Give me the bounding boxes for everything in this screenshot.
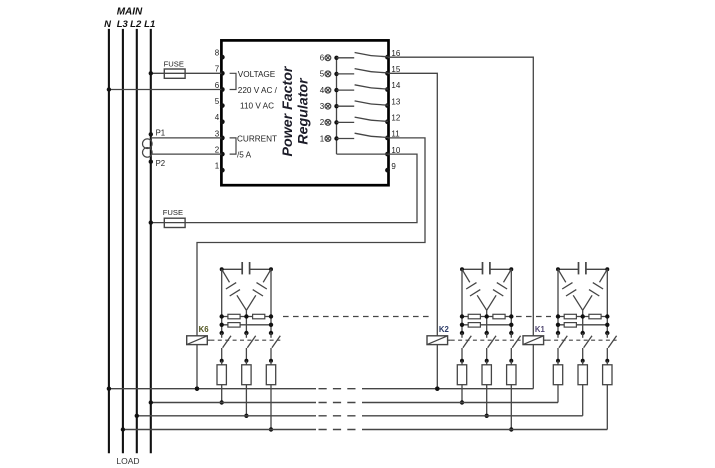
fuse F23	[510, 361, 512, 430]
node bus L2 junctions	[135, 414, 139, 418]
pin 13 of U1	[385, 103, 390, 108]
node discharge row 2	[460, 323, 464, 327]
relay contact K2-2	[485, 331, 489, 335]
contactor coil K2	[427, 336, 448, 345]
wire pin 10 to fuse F2 to L1	[151, 154, 417, 223]
wire pin 11 to contactor K6 coil	[197, 138, 425, 336]
wire N to pin 6	[109, 89, 221, 91]
svg-text:2: 2	[320, 118, 325, 127]
fuse F21	[461, 361, 463, 403]
linkage K2 dashed	[451, 339, 521, 341]
svg-text:6: 6	[320, 54, 325, 63]
node discharge row 1	[220, 314, 224, 318]
wire L1 to fuse F1 to pin 7	[151, 72, 222, 74]
svg-text:Regulator: Regulator	[295, 77, 311, 145]
capacitor C6c right	[263, 269, 271, 282]
label Power Factor Regulator	[280, 65, 311, 156]
svg-text:N: N	[104, 19, 112, 30]
wire K2 bank center stub	[486, 310, 488, 316]
node K2 stem 2 to bus	[485, 414, 489, 418]
svg-text:10: 10	[391, 146, 400, 155]
wire P1 to pin 3	[151, 137, 222, 139]
svg-text:/5 A: /5 A	[237, 150, 252, 159]
svg-text:6: 6	[215, 81, 220, 90]
svg-text:12: 12	[391, 114, 400, 123]
resistor R1c	[564, 323, 576, 328]
svg-text:FUSE: FUSE	[163, 208, 183, 217]
relay contact 3 of U1	[320, 101, 388, 111]
pin 5 of U1	[220, 103, 225, 108]
pin 4 of U1	[220, 119, 225, 124]
node K6 bank corners	[220, 267, 224, 271]
svg-text:14: 14	[391, 81, 400, 90]
wire pin 16 to contactor K1 coil	[388, 57, 534, 336]
wire K1 bank side legs	[557, 269, 559, 333]
wire bus L3	[123, 429, 316, 431]
pin 11 of U1	[385, 136, 390, 141]
svg-text:K6: K6	[199, 325, 210, 334]
svg-text:2: 2	[215, 146, 220, 155]
relay contact 1 of U1	[320, 133, 388, 143]
resistor R6a	[228, 314, 240, 319]
svg-text:3: 3	[320, 102, 325, 111]
relay contact K1-1	[556, 331, 560, 335]
node L1 fuse F2 tap	[149, 220, 153, 224]
node K1 bank corners	[556, 267, 560, 271]
pin 6 of U1	[220, 87, 225, 92]
pin 8 of U1	[220, 55, 225, 60]
wire discharge row 1	[222, 316, 271, 318]
fuse F63	[270, 361, 272, 430]
capacitor C1c right	[600, 269, 608, 282]
svg-text:FUSE: FUSE	[164, 59, 184, 68]
wire bus N	[109, 388, 316, 390]
wire K2 coil to bus	[436, 345, 438, 389]
node K6 stem 2 to bus	[244, 414, 248, 418]
svg-text:4: 4	[215, 113, 220, 122]
svg-text:CURRENT: CURRENT	[237, 135, 277, 144]
wire K1 bank center stub	[582, 310, 584, 316]
pin 7 of U1	[220, 71, 225, 76]
fuse F12	[582, 361, 584, 416]
wire discharge row 2	[462, 324, 511, 326]
fuse F2	[164, 218, 185, 227]
node K2 bank corners	[460, 267, 464, 271]
node discharge row 1	[460, 314, 464, 318]
svg-text:4: 4	[320, 86, 325, 95]
svg-text:9: 9	[391, 162, 396, 171]
linkage K6 dashed	[210, 339, 280, 341]
wire pin 15 to contactor K2 coil	[388, 73, 438, 336]
node discharge row 2	[556, 323, 560, 327]
pin 10 of U1	[385, 152, 390, 157]
node L1 fuse tap	[149, 71, 153, 75]
resistor R2b	[493, 314, 505, 319]
wire feeder L2	[136, 29, 138, 453]
svg-text:7: 7	[215, 65, 220, 74]
node K6 stem 1 to bus	[220, 400, 224, 404]
pin 9 of U1	[385, 168, 390, 173]
wire K6 coil to bus	[196, 345, 198, 389]
resistor R6c	[228, 323, 240, 328]
relay contact 2 of U1	[320, 117, 388, 127]
wire discharge row 1	[462, 316, 511, 318]
wire feeder N	[108, 29, 110, 453]
resistor R2c	[468, 323, 480, 328]
label CURRENT bracket	[230, 138, 236, 154]
capacitor C2c right	[504, 269, 512, 282]
svg-text:P1: P1	[156, 129, 166, 138]
node K2 stem 1 to bus	[460, 400, 464, 404]
op-amp U1 Power Factor Regulator box	[221, 40, 388, 185]
relay contact K6-1	[220, 331, 224, 335]
fuse F1	[164, 69, 185, 78]
wire discharge row 1	[558, 316, 607, 318]
pin 2 of U1	[220, 152, 225, 157]
relay contact K6-3	[269, 331, 273, 335]
resistor R1a	[564, 314, 576, 319]
resistor R2a	[468, 314, 480, 319]
svg-text:L2: L2	[130, 19, 142, 30]
node K2 stem 3 to bus	[509, 427, 513, 431]
relay contact 6 of U1	[320, 53, 388, 63]
fuse F11	[557, 361, 559, 403]
node K2 coil to N bus	[435, 387, 439, 391]
svg-text:K2: K2	[439, 325, 450, 334]
capacitor C6b left	[222, 269, 230, 282]
node bus N junctions	[107, 387, 111, 391]
svg-text:220 V AC /: 220 V AC /	[238, 86, 278, 95]
linkage K1 dashed	[547, 339, 617, 341]
relay contact 4 of U1	[320, 85, 388, 95]
pin 1 of U1	[220, 168, 225, 173]
fuse F13	[606, 361, 608, 430]
capacitor C6a top	[222, 268, 243, 270]
capacitor C1a top	[558, 268, 579, 270]
node discharge row 1	[556, 314, 560, 318]
wire bus L2	[137, 415, 316, 417]
relay contact K6-2	[244, 331, 248, 335]
capacitor C2b left	[462, 269, 470, 282]
svg-text:L3: L3	[117, 19, 129, 30]
wire K1 coil to bus	[532, 345, 534, 389]
relay contact K1-3	[605, 331, 609, 335]
node P1	[149, 132, 153, 136]
node K6 stem 3 to bus	[269, 427, 273, 431]
svg-text:P2: P2	[156, 159, 166, 168]
contactor coil K6	[187, 336, 208, 345]
fuse F62	[245, 361, 247, 416]
node bus L1 junctions	[149, 400, 153, 404]
pin 3 of U1	[220, 136, 225, 141]
svg-text:13: 13	[391, 97, 400, 106]
wire K6 bank center stub	[245, 310, 247, 316]
svg-text:K1: K1	[535, 325, 546, 334]
resistor R1b	[589, 314, 601, 319]
svg-text:Power Factor: Power Factor	[280, 65, 296, 156]
label VOLTAGE bracket	[230, 73, 236, 89]
node bus L3 junctions	[121, 427, 125, 431]
svg-text:3: 3	[215, 129, 220, 138]
resistor R6b	[253, 314, 265, 319]
pin 14 of U1	[385, 87, 390, 92]
svg-text:110 V AC: 110 V AC	[240, 101, 274, 110]
node internal common bus	[336, 58, 338, 154]
node P2	[149, 160, 153, 164]
svg-text:VOLTAGE: VOLTAGE	[238, 70, 276, 79]
svg-text:MAIN: MAIN	[117, 7, 143, 18]
fuse F22	[486, 361, 488, 416]
svg-text:L1: L1	[144, 19, 155, 30]
relay contact K2-3	[509, 331, 513, 335]
relay contact 5 of U1	[320, 69, 388, 79]
svg-text:8: 8	[215, 49, 220, 58]
pin 12 of U1	[385, 119, 390, 124]
wire P2 to pin 2	[151, 153, 222, 155]
node discharge row 2	[220, 323, 224, 327]
svg-text:5: 5	[320, 70, 325, 79]
transformer CT1 winding	[143, 139, 153, 149]
node K6 coil to N bus	[195, 387, 199, 391]
wire discharge row 2	[558, 324, 607, 326]
wire K6 bank side legs	[221, 269, 223, 333]
wire bus L1	[151, 402, 316, 404]
wire K2 bank side legs	[461, 269, 463, 333]
node N pin6 tap	[107, 87, 111, 91]
fuse F61	[221, 361, 223, 403]
pin 15 of U1	[385, 71, 390, 76]
relay contact K1-2	[581, 331, 585, 335]
relay contact K2-1	[460, 331, 464, 335]
wire dashed bank row continuation 1	[283, 316, 430, 318]
capacitor C2a top	[462, 268, 483, 270]
svg-text:LOAD: LOAD	[116, 456, 139, 466]
wire feeder L1	[150, 29, 152, 453]
pin 16 of U1	[385, 55, 390, 60]
wire discharge row 2	[222, 324, 271, 326]
svg-text:5: 5	[215, 97, 220, 106]
contactor coil K1	[523, 336, 544, 345]
wire feeder L3	[122, 29, 124, 453]
svg-text:1: 1	[215, 162, 220, 171]
svg-text:1: 1	[320, 134, 325, 143]
capacitor C1b left	[558, 269, 566, 282]
wire dashed bank row continuation 2	[516, 316, 551, 318]
